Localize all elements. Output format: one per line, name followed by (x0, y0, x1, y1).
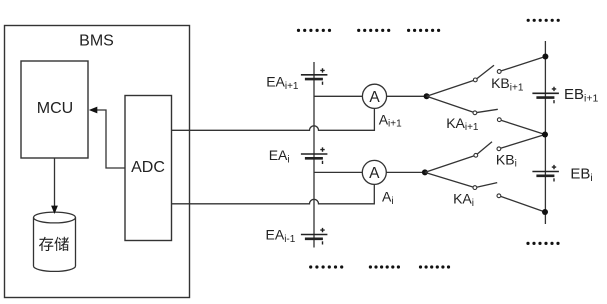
ADC block (125, 96, 172, 241)
wire: MCU to storage (arrow down) (51, 158, 58, 214)
wire: ammeter A_i to node (386, 171, 425, 173)
svg-text:KAi+1: KAi+1 (446, 115, 479, 133)
battery EB_i+1 (532, 87, 559, 104)
label KB_i (496, 151, 517, 169)
ellipsis dots top row group 1 (297, 29, 331, 32)
ammeter A_i (362, 160, 386, 184)
svg-text:Ai+1: Ai+1 (379, 111, 402, 129)
wire: EA chain tap to ammeter A_i+1 (314, 95, 362, 97)
switch KA_i+1 (427, 96, 545, 134)
ellipsis dots top row group 2 (357, 29, 390, 32)
battery EB_i (532, 165, 559, 182)
battery EA_i-1 (301, 228, 328, 245)
battery EA_i (301, 147, 328, 164)
switch KB_i (425, 135, 545, 173)
svg-text:BMS: BMS (79, 33, 114, 50)
node at A_i+1 output (424, 93, 430, 99)
battery EA_i+1 (301, 68, 328, 85)
svg-text:A: A (369, 89, 380, 106)
EA battery chain wire (313, 62, 315, 248)
label EA_i (269, 147, 290, 165)
ellipsis dots top EB chain (527, 19, 560, 22)
label KA_i+1 (446, 115, 479, 133)
ellipsis dots bottom row group 3 (419, 265, 450, 268)
ellipsis dots bottom row group 1 (309, 265, 343, 268)
wire: ADC left to MCU (arrow into MCU) (89, 107, 125, 168)
svg-text:KBi+1: KBi+1 (491, 75, 524, 93)
node EB top (542, 54, 548, 60)
BMS enclosure box (5, 26, 190, 298)
node EB middle (542, 132, 548, 138)
svg-text:Ai: Ai (382, 189, 394, 207)
node at A_i output (422, 169, 428, 175)
ellipsis dots bottom EB chain (526, 242, 559, 245)
svg-text:MCU: MCU (37, 100, 73, 117)
ellipsis dots bottom row group 2 (369, 265, 400, 268)
label A_i (382, 189, 394, 207)
svg-text:KBi: KBi (496, 151, 517, 169)
ammeter A_i+1 (362, 84, 386, 108)
svg-text:EAi-1: EAi-1 (266, 226, 296, 244)
label KB_i+1 (491, 75, 524, 93)
svg-text:EAi: EAi (269, 147, 290, 165)
label EB_i+1 (564, 86, 598, 105)
svg-text:EBi: EBi (570, 165, 592, 184)
node EB bottom (542, 209, 548, 215)
wire: ammeter A_i+1 to node (387, 95, 427, 97)
label EA_i-1 (266, 226, 296, 244)
svg-text:ADC: ADC (131, 159, 165, 176)
wire: ADC output line 1 (to ammeter A_i+1, hops over EA chain) (172, 108, 375, 130)
MCU block (21, 61, 88, 158)
EB battery chain wire (544, 41, 546, 224)
wire: ADC output line 2 (to ammeter A_i, hops over EA chain) (172, 184, 375, 203)
svg-text:A: A (369, 165, 380, 182)
svg-text:EBi+1: EBi+1 (564, 86, 598, 105)
wire: EA chain tap to ammeter A_i (314, 171, 362, 173)
svg-text:EAi+1: EAi+1 (266, 73, 299, 91)
switch KA_i (425, 172, 545, 212)
svg-text:KAi: KAi (453, 191, 474, 209)
label EB_i (570, 165, 592, 184)
switch KB_i+1 (427, 57, 546, 97)
label KA_i (453, 191, 474, 209)
storage cylinder 存储 (34, 212, 76, 271)
ellipsis dots top row group 3 (407, 29, 440, 32)
BMS label (79, 33, 114, 50)
label A_i+1 (379, 111, 402, 129)
label EA_i+1 (266, 73, 299, 91)
